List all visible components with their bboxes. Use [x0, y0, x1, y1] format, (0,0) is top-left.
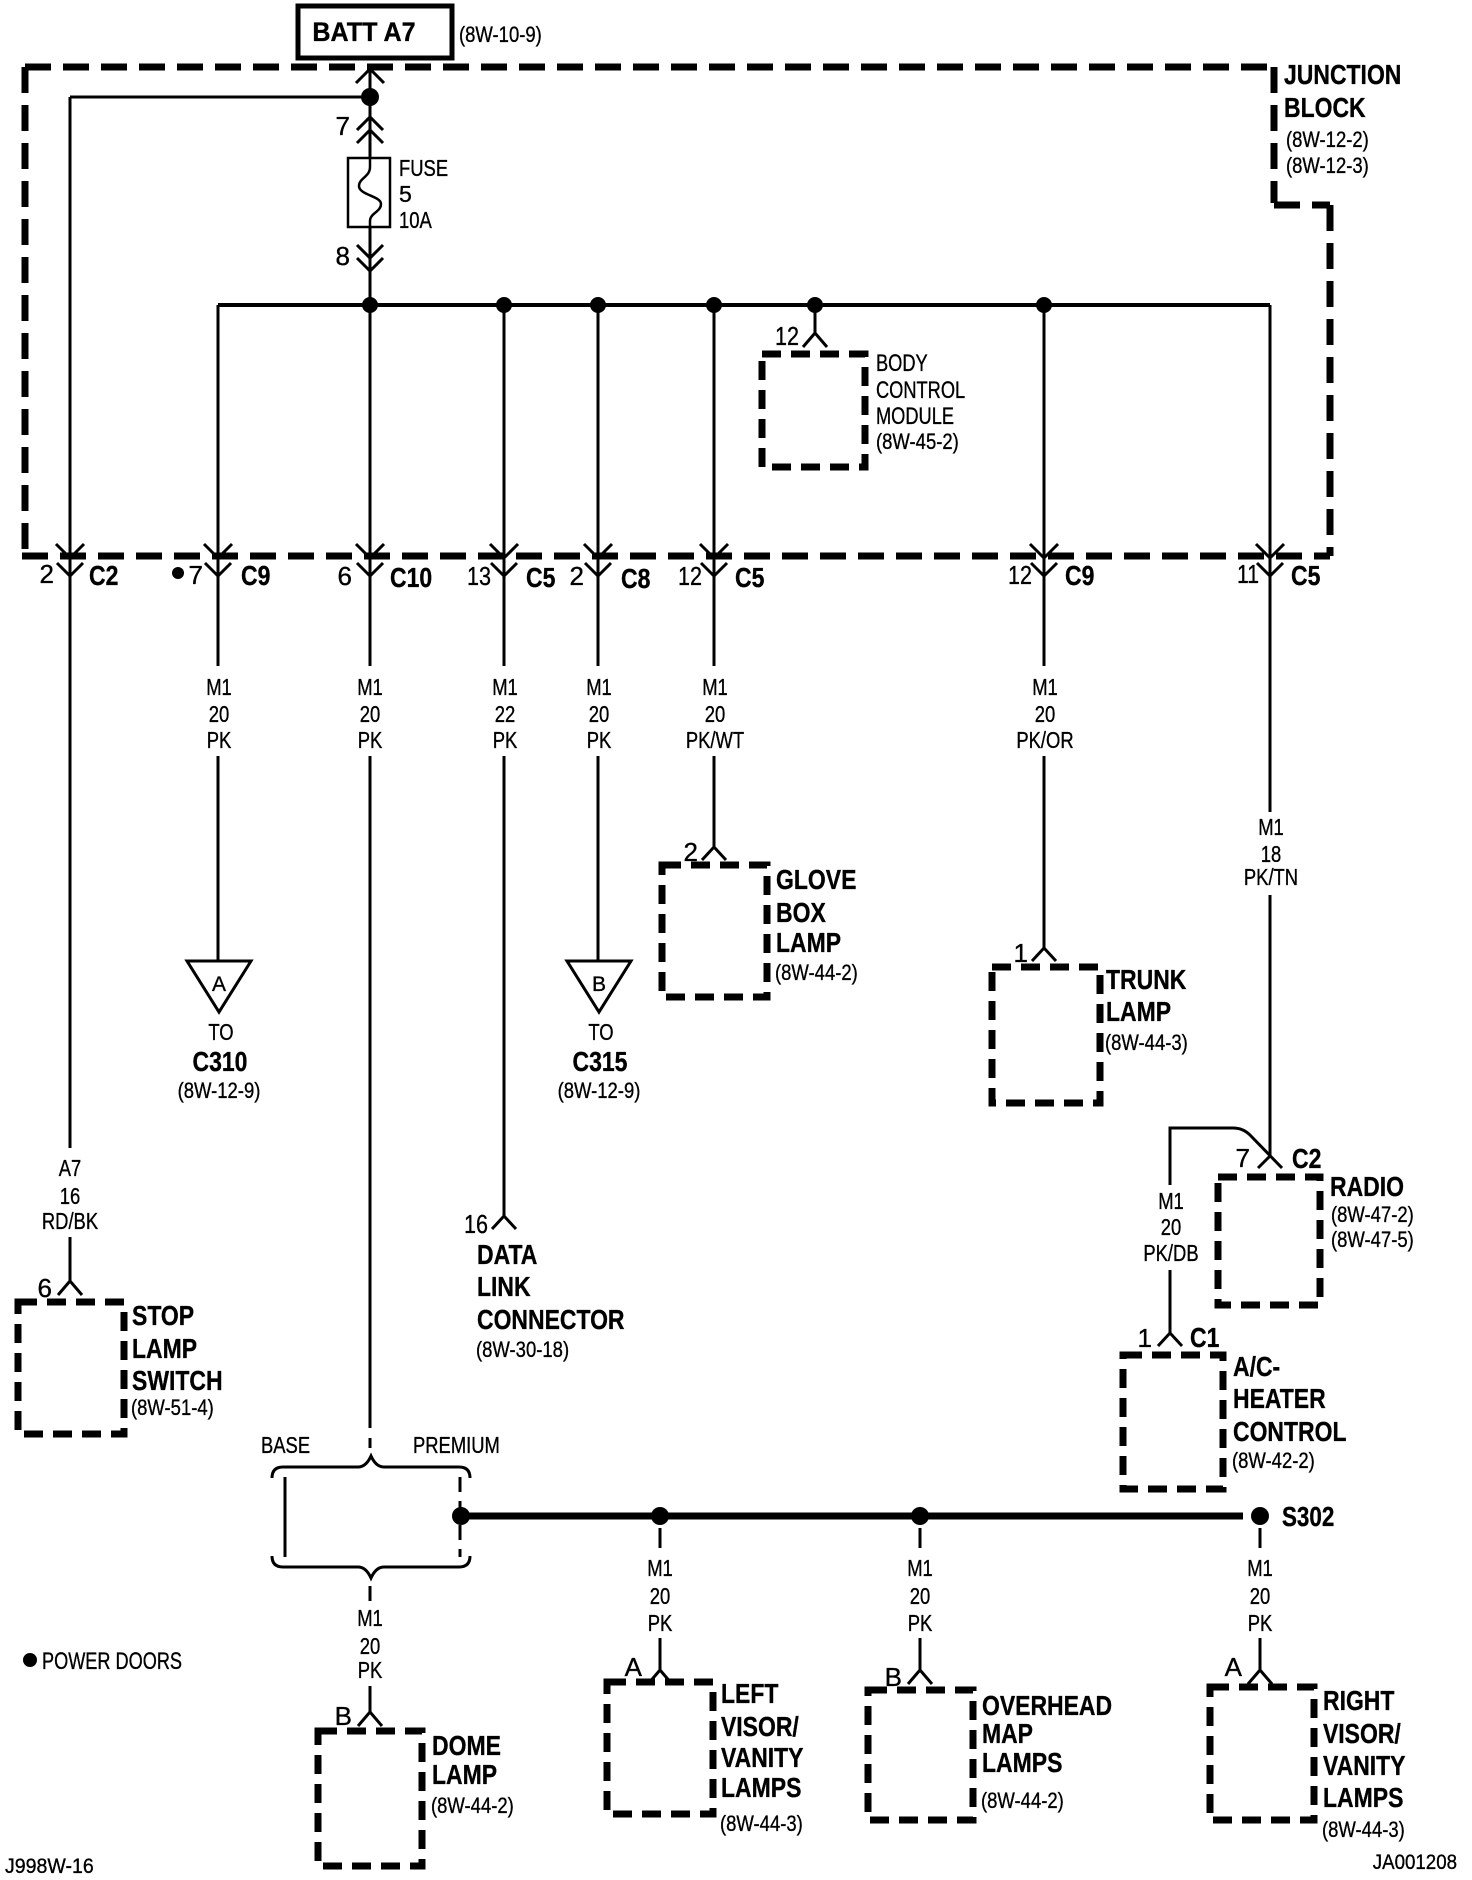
wire: to right visor pin A: [1259, 1638, 1262, 1670]
svg-text:16: 16: [464, 1209, 488, 1239]
svg-text:TO: TO: [588, 1019, 613, 1045]
svg-text:M1: M1: [1032, 674, 1058, 700]
svg-text:(8W-10-9): (8W-10-9): [459, 22, 542, 47]
radio box: [1218, 1177, 1320, 1305]
battery feed box BATT A7: [298, 6, 452, 58]
overhead map lamps box: [868, 1690, 973, 1820]
wire label M1 20 PK (overhead map): [907, 1555, 933, 1636]
wire: to dome lamp pin B: [369, 1686, 372, 1712]
svg-text:DATA: DATA: [477, 1239, 537, 1270]
body control module box: [762, 354, 865, 467]
svg-text:VISOR/: VISOR/: [1323, 1718, 1401, 1749]
svg-text:12: 12: [1008, 560, 1032, 590]
svg-text:M1: M1: [586, 674, 612, 700]
svg-text:20: 20: [589, 701, 610, 727]
svg-text:M1: M1: [907, 1555, 933, 1581]
svg-text:C315: C315: [573, 1046, 628, 1077]
node: bus junction at C8 wire: [590, 297, 606, 313]
svg-text:LEFT: LEFT: [721, 1678, 778, 1709]
svg-text:DOME: DOME: [432, 1730, 501, 1761]
connector C2 pin 2 (arrow + fork at junction block edge): [56, 544, 84, 576]
connector C8 pin 2 (arrow + fork): [584, 544, 612, 576]
svg-text:VISOR/: VISOR/: [721, 1711, 799, 1742]
wire: to stop lamp switch pin 6: [69, 1237, 72, 1281]
node: bus junction at C5-12 wire: [706, 297, 722, 313]
svg-text:HEATER: HEATER: [1233, 1383, 1326, 1414]
wire: stop lamp branch down through C2: [69, 97, 72, 1148]
left visor/vanity lamps box: [607, 1682, 713, 1814]
fork terminal at right visor pin A: [1248, 1670, 1272, 1684]
svg-text:(8W-45-2): (8W-45-2): [876, 429, 959, 454]
svg-text:20: 20: [360, 701, 381, 727]
svg-text:VANITY: VANITY: [1323, 1750, 1406, 1781]
svg-text:12: 12: [678, 561, 702, 591]
wire label M1 20 PK (right visor): [1247, 1555, 1273, 1636]
svg-text:12: 12: [775, 321, 799, 351]
svg-text:(8W-44-2): (8W-44-2): [981, 1788, 1064, 1813]
off-page triangle B to C315: [567, 961, 631, 1012]
svg-text:PK: PK: [358, 1657, 383, 1683]
svg-text:LAMP: LAMP: [776, 927, 841, 958]
node: splice at top of fuse feed: [361, 88, 379, 106]
svg-text:JA001208: JA001208: [1373, 1851, 1457, 1874]
svg-text:20: 20: [910, 1583, 931, 1609]
svg-text:VANITY: VANITY: [721, 1742, 804, 1773]
svg-text:(8W-44-2): (8W-44-2): [431, 1793, 514, 1818]
trunk lamp box: [992, 967, 1100, 1103]
svg-text:10A: 10A: [399, 207, 432, 233]
wire label M1 20 PK (dome lamp): [357, 1605, 383, 1683]
svg-text:BODY: BODY: [876, 350, 928, 377]
svg-text:C5: C5: [735, 562, 764, 593]
pin 7 of fuse cavity (double chevron): [357, 117, 383, 143]
connector C9 pin 12 (arrow + fork): [1030, 544, 1058, 576]
svg-text:OVERHEAD: OVERHEAD: [982, 1690, 1112, 1721]
svg-text:GLOVE: GLOVE: [776, 864, 856, 895]
junction block name label: [1284, 59, 1401, 178]
svg-text:8: 8: [336, 241, 350, 271]
svg-text:(8W-51-4): (8W-51-4): [131, 1395, 214, 1420]
fork terminal at radio connector C2 pin 7: [1258, 1156, 1270, 1168]
svg-text:PREMIUM: PREMIUM: [413, 1432, 500, 1458]
svg-text:PK: PK: [587, 727, 612, 753]
wire: bus right corner down to C5 connector: [1269, 305, 1272, 812]
svg-text:20: 20: [650, 1583, 671, 1609]
svg-text:M1: M1: [206, 674, 232, 700]
wire label A7 16 RD/BK (stop lamp branch): [42, 1155, 99, 1234]
node: S302 bus at left visor wire: [651, 1507, 669, 1525]
svg-text:LINK: LINK: [477, 1271, 531, 1302]
svg-text:(8W-42-2): (8W-42-2): [1232, 1448, 1315, 1473]
svg-text:M1: M1: [1158, 1188, 1184, 1214]
wire: C10 pin6 column: [369, 305, 372, 666]
wire label M1 20 PK/OR: [1016, 674, 1073, 753]
svg-text:MAP: MAP: [982, 1718, 1033, 1749]
wire label M1 18 PK/TN: [1244, 814, 1298, 890]
A/C-heater control box: [1123, 1355, 1223, 1489]
svg-text:(8W-47-2): (8W-47-2): [1331, 1202, 1414, 1227]
svg-text:(8W-44-3): (8W-44-3): [720, 1811, 803, 1836]
svg-text:(8W-44-3): (8W-44-3): [1105, 1030, 1188, 1055]
svg-text:C2: C2: [89, 560, 118, 591]
svg-text:C5: C5: [1291, 560, 1320, 591]
svg-text:20: 20: [209, 701, 230, 727]
svg-text:LAMP: LAMP: [1106, 996, 1171, 1027]
svg-text:TRUNK: TRUNK: [1106, 964, 1186, 995]
svg-text:M1: M1: [357, 1605, 383, 1631]
svg-text:M1: M1: [1247, 1555, 1273, 1581]
arrowhead into BATT A7: [356, 69, 384, 83]
svg-text:POWER DOORS: POWER DOORS: [42, 1648, 182, 1675]
drawing number J998W-16: [5, 1855, 94, 1878]
fuse F5 10A: [348, 158, 390, 227]
drawing number JA001208: [1373, 1851, 1457, 1874]
svg-text:STOP: STOP: [132, 1300, 194, 1331]
svg-text:C10: C10: [390, 562, 432, 593]
node: S302 bus at overhead map wire: [911, 1507, 929, 1525]
wire: C5 pin12 column: [713, 305, 716, 666]
svg-text:M1: M1: [647, 1555, 673, 1581]
off-page triangle A to C310: [187, 961, 251, 1012]
svg-text:FUSE: FUSE: [399, 155, 448, 181]
option split bottom brace: [272, 1556, 470, 1578]
svg-text:LAMP: LAMP: [432, 1759, 497, 1790]
svg-text:RADIO: RADIO: [1330, 1171, 1404, 1202]
wire label M1 22 PK (C5-13 column): [492, 674, 518, 753]
svg-text:BATT A7: BATT A7: [312, 17, 415, 47]
fork terminal at A/C-heater control C1 pin 1: [1158, 1333, 1182, 1346]
fork terminal at dome lamp pin B: [358, 1712, 382, 1726]
svg-text:A: A: [212, 973, 226, 996]
right visor/vanity lamps box: [1210, 1687, 1314, 1820]
wire label M1 20 PK (C9 column): [206, 674, 232, 753]
svg-text:TO: TO: [208, 1019, 233, 1045]
svg-text:(8W-47-5): (8W-47-5): [1331, 1227, 1414, 1252]
svg-text:1: 1: [1138, 1323, 1152, 1353]
wire: BATT A7 down to fuse: [369, 70, 372, 158]
svg-text:RIGHT: RIGHT: [1323, 1685, 1394, 1716]
svg-text:(8W-30-18): (8W-30-18): [476, 1337, 569, 1362]
svg-text:PK/WT: PK/WT: [686, 727, 744, 753]
svg-text:M1: M1: [492, 674, 518, 700]
svg-text:C9: C9: [1065, 560, 1094, 591]
svg-text:BOX: BOX: [776, 897, 826, 928]
svg-text:PK: PK: [1248, 1610, 1273, 1636]
svg-text:A7: A7: [59, 1155, 82, 1181]
svg-text:A/C-: A/C-: [1233, 1351, 1280, 1382]
wire: splice left to stop lamp switch branch: [70, 96, 370, 99]
svg-text:20: 20: [705, 701, 726, 727]
svg-text:C2: C2: [1292, 1143, 1321, 1174]
junction block border (dashed): [22, 67, 1330, 556]
dome lamp box: [318, 1731, 422, 1866]
svg-text:22: 22: [495, 701, 516, 727]
svg-text:BLOCK: BLOCK: [1284, 92, 1366, 123]
svg-text:B: B: [335, 1701, 352, 1731]
svg-text:C5: C5: [526, 562, 555, 593]
power doors legend bullet: [23, 1653, 37, 1667]
svg-text:2: 2: [40, 559, 54, 589]
wire label M1 20 PK (C10 column): [357, 674, 383, 753]
svg-text:5: 5: [399, 181, 412, 207]
fork terminal at data link connector pin 16: [492, 1216, 516, 1229]
wire: PREMIUM branch (dashed): [459, 1477, 462, 1557]
svg-text:16: 16: [60, 1183, 81, 1209]
svg-text:C9: C9: [241, 560, 270, 591]
svg-text:6: 6: [338, 561, 352, 591]
wire label M1 20 PK (left visor): [647, 1555, 673, 1636]
svg-text:7: 7: [336, 111, 350, 141]
svg-text:(8W-44-2): (8W-44-2): [775, 960, 858, 985]
wire: bus to body control module pin 12: [814, 305, 817, 333]
option split top brace: [272, 1456, 470, 1478]
svg-text:PK: PK: [207, 727, 232, 753]
svg-text:(8W-12-2): (8W-12-2): [1286, 127, 1369, 152]
svg-text:11: 11: [1237, 559, 1259, 589]
wire: left visor feed stub: [659, 1528, 662, 1548]
wire: dome lamp feed below split (dashed stub): [369, 1586, 372, 1601]
svg-text:PK: PK: [648, 1610, 673, 1636]
svg-text:M1: M1: [702, 674, 728, 700]
wire: to overhead map pin B: [919, 1638, 922, 1670]
main feed bus after fuse: [218, 303, 1270, 307]
node: bus junction at BCM wire: [807, 297, 823, 313]
svg-text:2: 2: [570, 561, 584, 591]
svg-text:RD/BK: RD/BK: [42, 1208, 99, 1234]
wire label M1 20 PK (C8 column): [586, 674, 612, 753]
fork terminal at stop lamp switch pin 6: [58, 1281, 82, 1295]
node: bus junction at C10 wire: [362, 297, 378, 313]
BASE / PREMIUM option split labels: [261, 1432, 500, 1458]
wire: C5 pin13 column: [503, 305, 506, 666]
svg-text:S302: S302: [1282, 1501, 1334, 1532]
svg-text:C8: C8: [621, 563, 650, 594]
svg-text:JUNCTION: JUNCTION: [1284, 59, 1401, 90]
svg-text:7: 7: [1236, 1143, 1250, 1173]
svg-text:20: 20: [1161, 1214, 1182, 1240]
fork terminal at overhead map pin B: [908, 1670, 932, 1684]
svg-text:PK/TN: PK/TN: [1244, 864, 1298, 890]
connector C5 pin 11 (arrow + fork): [1256, 544, 1284, 576]
svg-text:B: B: [592, 973, 606, 996]
connector C10 pin 6 (arrow + fork): [356, 544, 384, 576]
svg-text:PK: PK: [908, 1610, 933, 1636]
wire label M1 20 PK/WT: [686, 674, 744, 753]
svg-text:PK: PK: [493, 727, 518, 753]
svg-text:J998W-16: J998W-16: [5, 1855, 94, 1878]
svg-text:BASE: BASE: [261, 1432, 310, 1458]
svg-text:(8W-12-9): (8W-12-9): [558, 1078, 641, 1103]
node: bus junction at C5-13 wire: [496, 297, 512, 313]
svg-text:A: A: [625, 1652, 643, 1682]
node: bus junction at C9-12 wire: [1036, 297, 1052, 313]
svg-text:M1: M1: [1258, 814, 1284, 840]
wire: fuse to bus: [369, 227, 372, 305]
wire label M1 20 PK/DB: [1143, 1188, 1198, 1266]
connector C5 pin 12 (arrow + fork): [700, 544, 728, 576]
svg-text:M1: M1: [357, 674, 383, 700]
svg-text:LAMP: LAMP: [132, 1333, 197, 1364]
wire: C8 pin2 column: [597, 305, 600, 666]
svg-text:13: 13: [467, 561, 491, 591]
svg-text:(8W-12-9): (8W-12-9): [178, 1078, 261, 1103]
svg-text:20: 20: [360, 1633, 381, 1659]
svg-text:A: A: [1225, 1652, 1243, 1682]
connector C5 pin 13 (arrow + fork): [490, 544, 518, 576]
fork terminal at BCM pin 12: [803, 333, 827, 347]
svg-text:(8W-12-3): (8W-12-3): [1286, 153, 1369, 178]
fork terminal at trunk lamp pin 1: [1032, 948, 1056, 961]
wire: right visor feed stub: [1259, 1528, 1262, 1548]
wire: BASE branch: [284, 1477, 287, 1557]
pin 8 of fuse cavity (double chevron): [357, 245, 383, 271]
power doors legend text: [42, 1648, 182, 1675]
svg-text:LAMPS: LAMPS: [721, 1772, 801, 1803]
node: splice S302 on premium branch: [452, 1507, 470, 1525]
svg-text:PK: PK: [358, 727, 383, 753]
wire: C9 pin7 column lower: [217, 756, 220, 963]
node: S302 bus at right visor wire: [1251, 1507, 1269, 1525]
svg-text:20: 20: [1035, 701, 1056, 727]
svg-text:7: 7: [189, 560, 203, 590]
svg-text:LAMPS: LAMPS: [982, 1747, 1062, 1778]
wire: branch tap to A/C-heater control: [1170, 1128, 1282, 1185]
svg-text:PK/OR: PK/OR: [1016, 727, 1073, 753]
wire: overhead map feed stub: [919, 1528, 922, 1548]
svg-text:CONTROL: CONTROL: [876, 377, 965, 404]
svg-text:PK/DB: PK/DB: [1143, 1240, 1198, 1266]
svg-text:C1: C1: [1190, 1322, 1219, 1353]
wire: C5 pin11 column lower segment: [1269, 895, 1272, 1156]
svg-text:LAMPS: LAMPS: [1323, 1782, 1403, 1813]
svg-text:20: 20: [1250, 1583, 1271, 1609]
svg-text:C310: C310: [193, 1046, 248, 1077]
svg-text:CONTROL: CONTROL: [1233, 1416, 1347, 1447]
splice bus S302: [461, 1513, 1243, 1520]
connector C9 pin 7 (arrow + fork): [204, 544, 232, 576]
fork terminal at glove box lamp pin 2: [702, 847, 726, 860]
fork terminal at left visor pin A: [648, 1670, 672, 1684]
svg-text:SWITCH: SWITCH: [132, 1365, 223, 1396]
svg-text:(8W-44-3): (8W-44-3): [1322, 1817, 1405, 1842]
wire: to left visor pin A: [659, 1638, 662, 1670]
wire: C9 pin12 column: [1043, 305, 1046, 666]
wire: bus corner down to C9 connector: [217, 305, 220, 666]
glove box lamp box: [662, 865, 767, 997]
stop lamp switch box: [18, 1302, 124, 1434]
svg-text:MODULE: MODULE: [876, 403, 954, 430]
svg-text:CONNECTOR: CONNECTOR: [477, 1304, 625, 1335]
wire: to A/C-heater control pin 1: [1169, 1270, 1172, 1333]
